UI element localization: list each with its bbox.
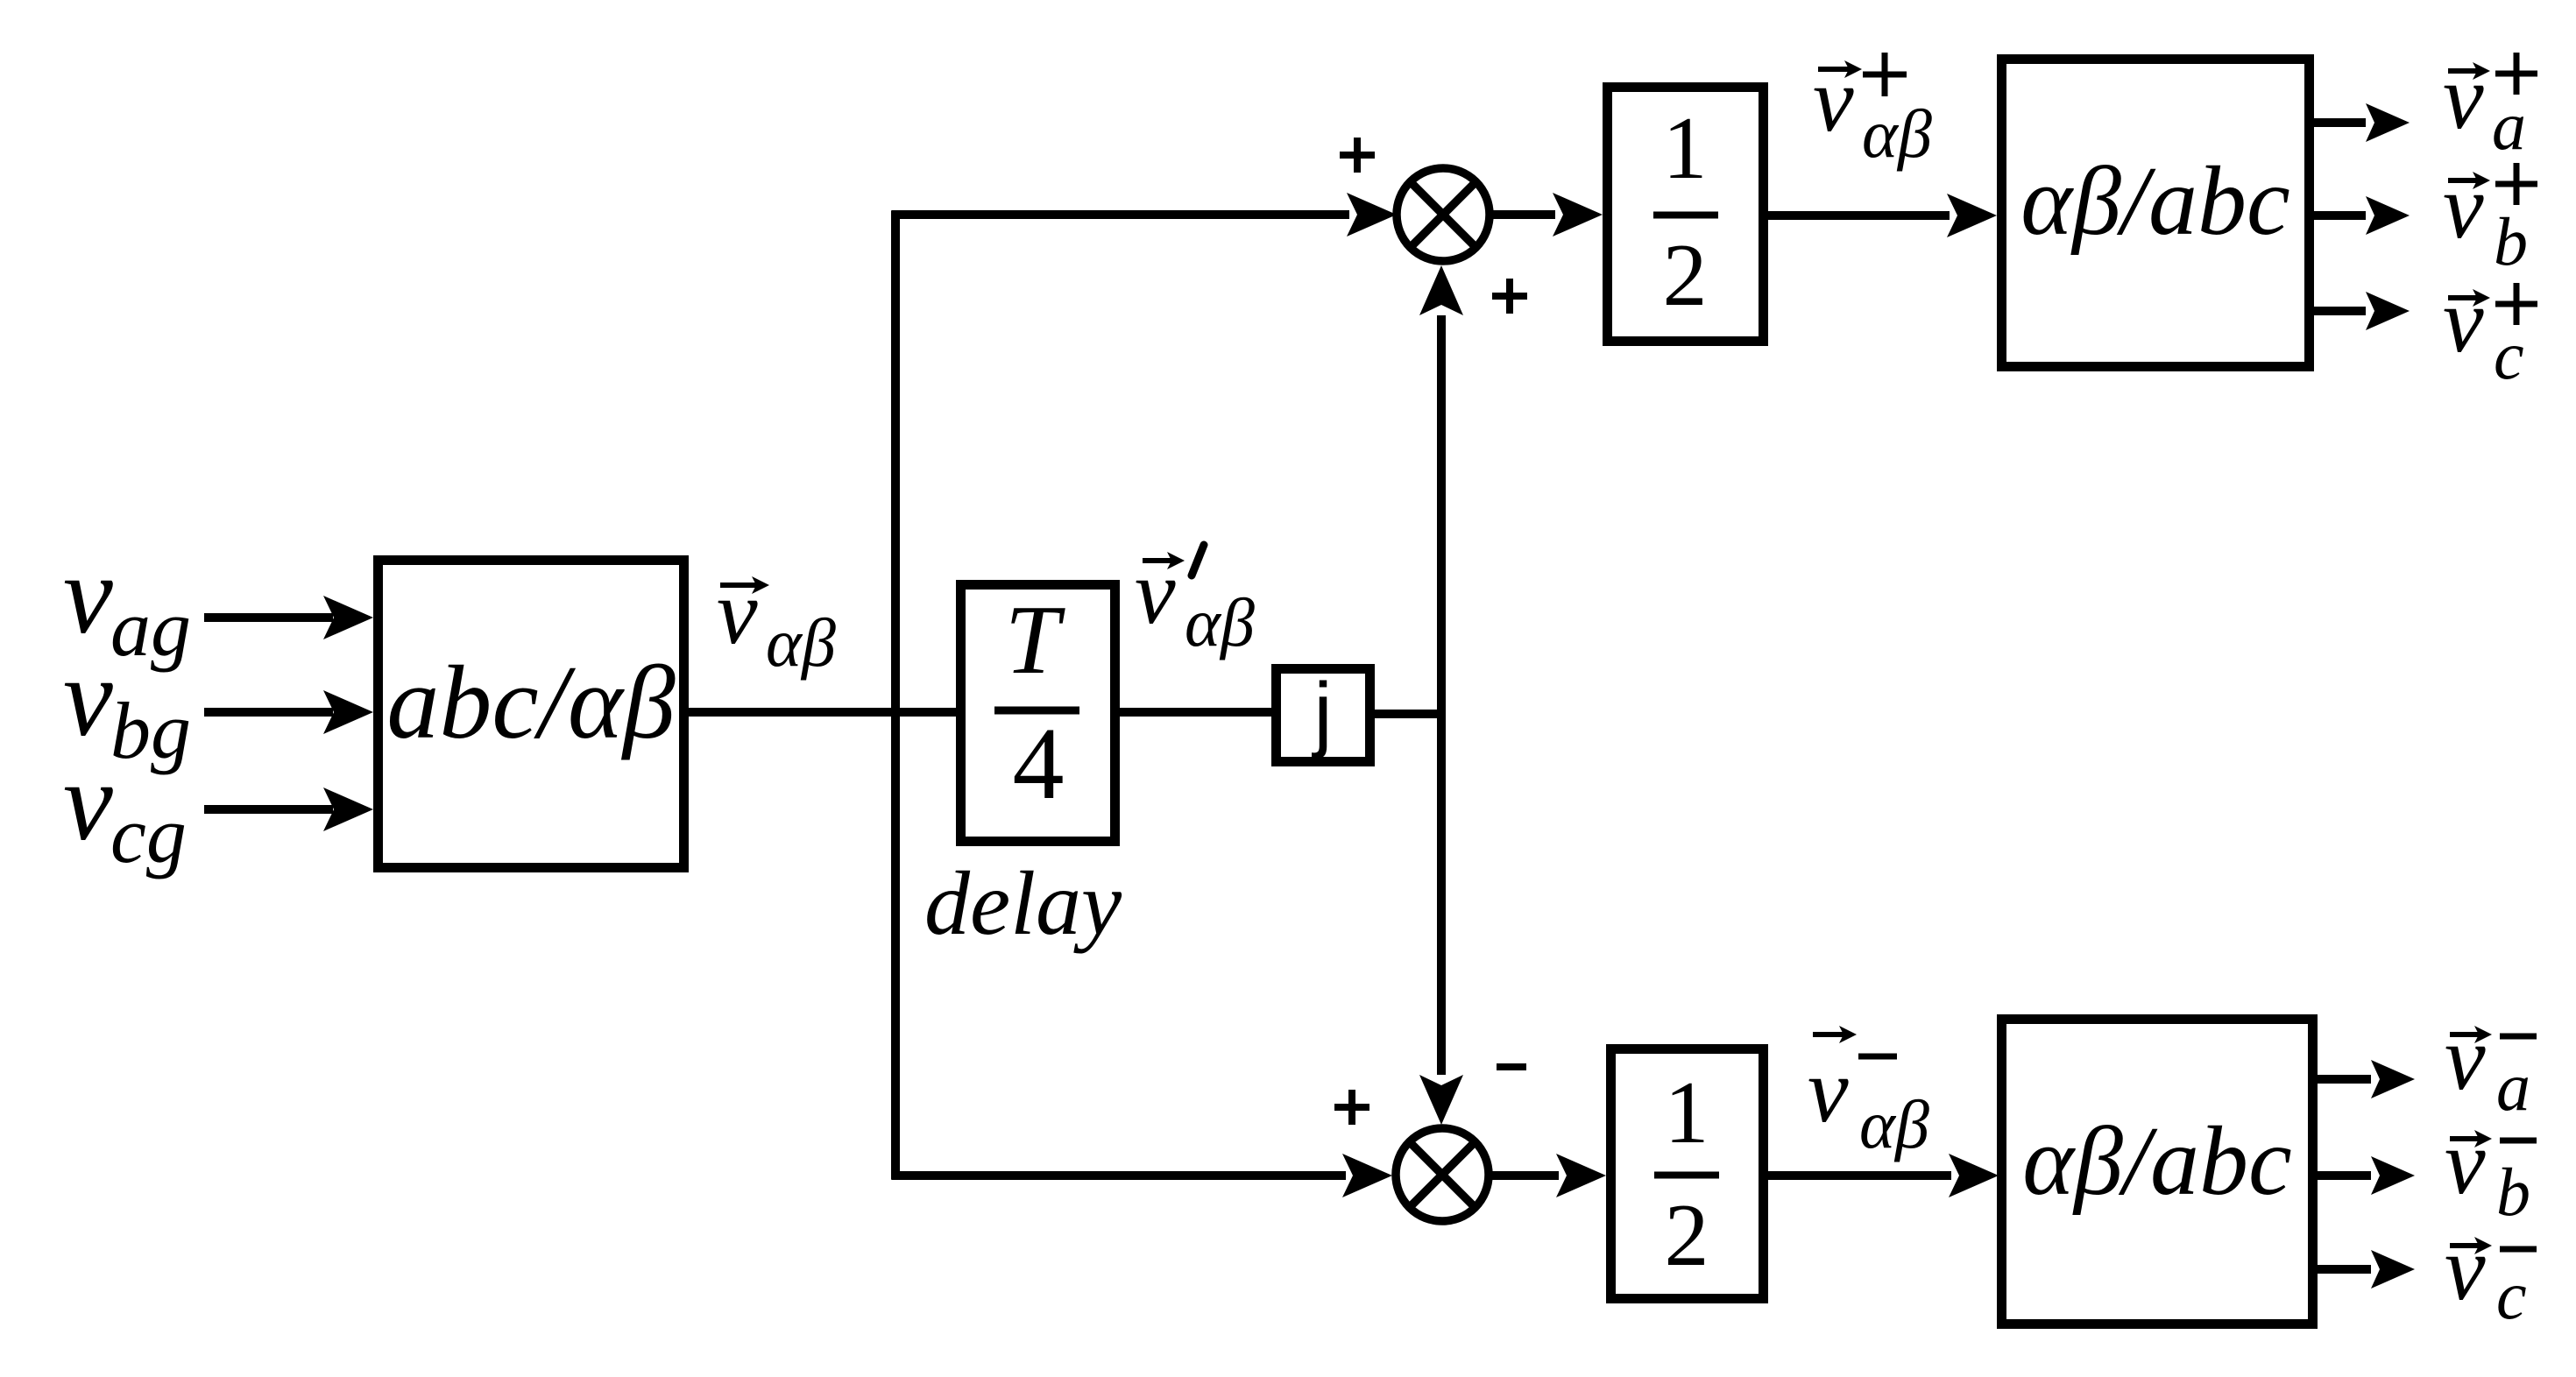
- svg-text:cg: cg: [110, 790, 187, 879]
- block gain 1/2 bottom: [1611, 1049, 1764, 1299]
- sign minus at M2 top input: [1497, 1063, 1526, 1070]
- wire vertical up to M1: [1419, 265, 1463, 714]
- svg-text:v: v: [2445, 1111, 2486, 1213]
- block j (imaginary operator): [1277, 666, 1370, 762]
- wire output v+c: [2310, 292, 2410, 330]
- svg-text:v: v: [717, 561, 758, 663]
- wire j to vertical node: [1370, 710, 1446, 718]
- label v_alphabeta: [717, 561, 836, 681]
- label v-_alphabeta: [1808, 1026, 1929, 1162]
- svg-text:c: c: [2494, 317, 2524, 393]
- svg-text:b: b: [2496, 1154, 2530, 1230]
- svg-text:abc/αβ: abc/αβ: [386, 644, 676, 760]
- svg-text:αβ: αβ: [1862, 95, 1932, 172]
- wire input v_bg: [204, 690, 373, 734]
- sign plus at M1 bottom input: [1492, 279, 1527, 314]
- svg-text:v: v: [1813, 48, 1854, 151]
- wire branch vertical (node split): [891, 211, 900, 1180]
- wire output v+b: [2310, 196, 2410, 235]
- block U1 abc/alphabeta: [379, 561, 684, 868]
- svg-text:bg: bg: [110, 686, 191, 775]
- label v-c: [2445, 1217, 2537, 1333]
- svg-text:j: j: [1311, 666, 1332, 759]
- svg-text:v: v: [2445, 1006, 2486, 1109]
- wire gain to alphabeta/abc bottom: [1764, 1154, 1999, 1197]
- svg-text:v: v: [1808, 1039, 1849, 1141]
- wire bottom branch to multiplier M2: [892, 1154, 1393, 1197]
- label v+c: [2443, 269, 2537, 393]
- svg-text:αβ: αβ: [1185, 584, 1255, 660]
- label vprime_alphabeta: [1135, 540, 1255, 660]
- wire vertical down to M2: [1419, 714, 1463, 1125]
- svg-text:delay: delay: [924, 853, 1122, 954]
- svg-text:c: c: [2496, 1257, 2527, 1333]
- wire output v-a: [2313, 1060, 2415, 1098]
- svg-text:a: a: [2492, 88, 2526, 164]
- block U3 alphabeta/abc bottom: [2002, 1020, 2313, 1324]
- label v+a: [2443, 46, 2537, 164]
- label v_bg: [63, 635, 191, 775]
- svg-text:v: v: [2443, 155, 2484, 258]
- block gain 1/2 top: [1608, 88, 1764, 342]
- wire input v_cg: [204, 787, 373, 831]
- svg-text:αβ/abc: αβ/abc: [2020, 147, 2289, 256]
- wire output v+a: [2310, 103, 2410, 142]
- svg-text:αβ/abc: αβ/abc: [2022, 1107, 2291, 1216]
- sign plus at M2 left input: [1334, 1090, 1369, 1125]
- multiplier M1 (top sum junction): [1397, 168, 1490, 261]
- block U2 alphabeta/abc top: [2002, 60, 2310, 367]
- label v+_alphabeta: [1813, 48, 1932, 172]
- svg-text:2: 2: [1665, 1186, 1709, 1285]
- block T/4 delay: [961, 585, 1115, 842]
- svg-text:a: a: [2496, 1049, 2530, 1125]
- wire output v-c: [2313, 1250, 2415, 1289]
- label v_cg: [63, 739, 187, 879]
- label v-b: [2445, 1111, 2537, 1230]
- svg-text:v: v: [2445, 1217, 2486, 1319]
- svg-text:b: b: [2494, 203, 2528, 279]
- svg-text:αβ: αβ: [1859, 1086, 1929, 1162]
- wire v_alphabeta main: [684, 708, 965, 717]
- wire M2 to gain 1/2 bottom: [1488, 1154, 1606, 1197]
- wire gain to alphabeta/abc top: [1764, 194, 1997, 237]
- label v-a: [2445, 1006, 2537, 1125]
- svg-text:1: 1: [1663, 99, 1708, 198]
- svg-text:v: v: [63, 739, 113, 864]
- svg-text:v: v: [2443, 46, 2484, 148]
- multiplier M2 (bottom sum junction): [1396, 1128, 1489, 1221]
- svg-text:αβ: αβ: [766, 604, 836, 681]
- svg-text:4: 4: [1013, 706, 1065, 821]
- svg-text:1: 1: [1665, 1063, 1709, 1162]
- wire input v_ag: [204, 596, 373, 639]
- wire M1 to gain 1/2 top: [1489, 193, 1603, 237]
- label v_ag: [63, 533, 191, 673]
- svg-text:ag: ag: [110, 583, 191, 673]
- sign plus at M1 left input: [1340, 138, 1375, 173]
- wire top branch to multiplier M1: [892, 193, 1398, 237]
- label v+b: [2443, 155, 2537, 279]
- wire T/4 to j: [1115, 708, 1276, 717]
- wire output v-b: [2313, 1156, 2415, 1195]
- svg-text:v: v: [2443, 269, 2484, 371]
- svg-text:T: T: [1005, 586, 1065, 695]
- svg-text:2: 2: [1663, 226, 1708, 325]
- svg-text:v: v: [1135, 540, 1176, 643]
